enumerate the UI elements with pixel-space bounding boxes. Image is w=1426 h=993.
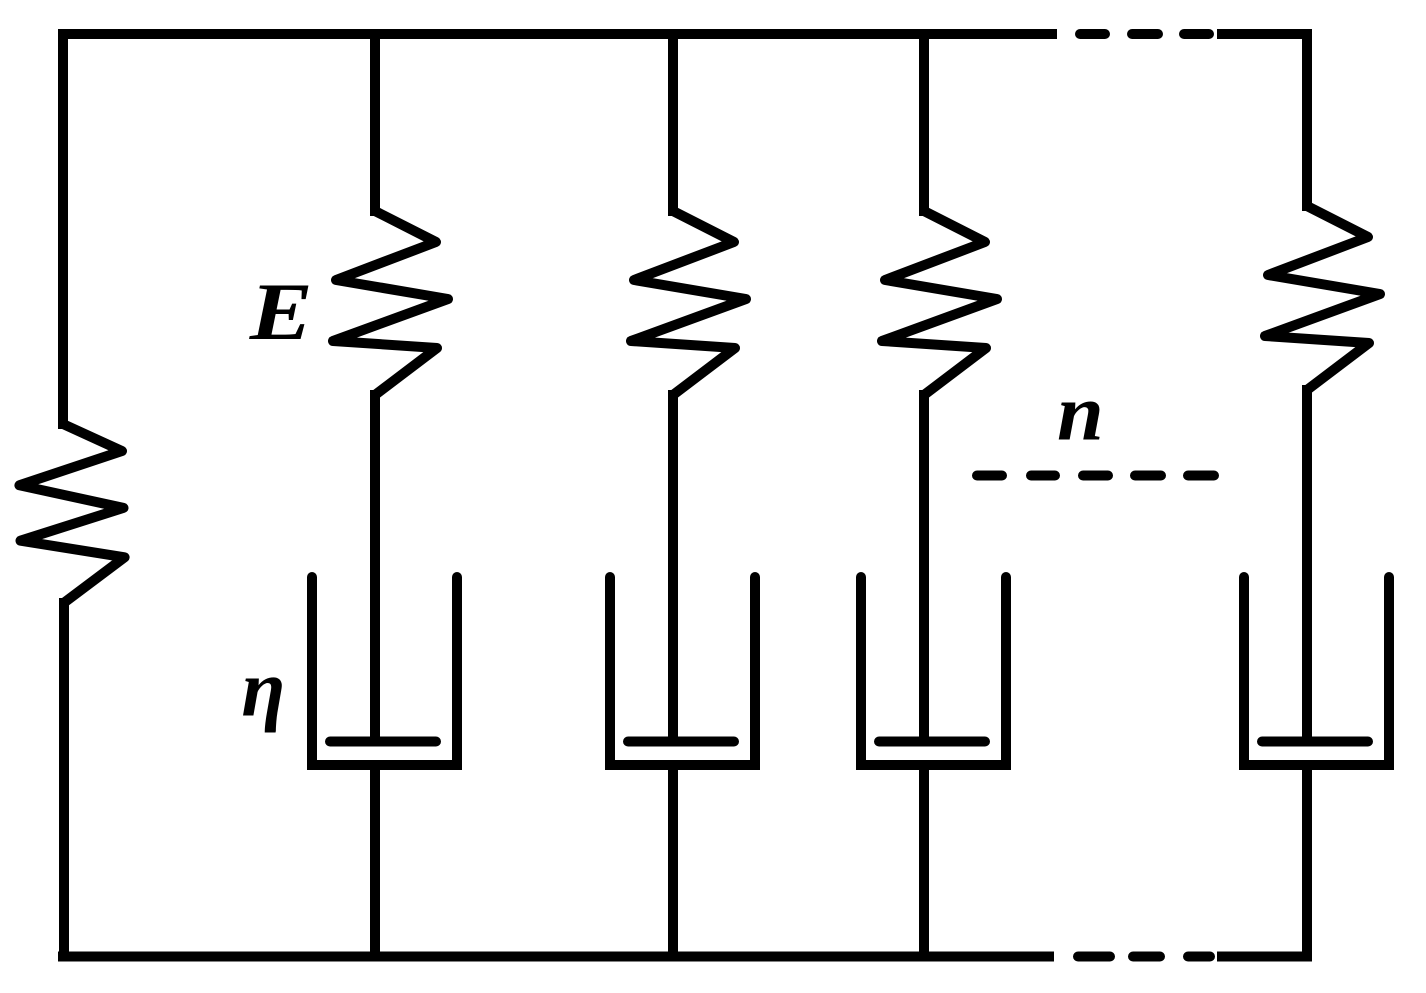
dashpot n piston plate <box>1262 737 1368 747</box>
dashpot n cup <box>1244 577 1389 765</box>
wire branch 1 piston rod <box>370 390 380 746</box>
wire branch n bottom stem <box>1302 765 1312 962</box>
dashpot 3 piston plate <box>879 737 985 747</box>
spring E2 <box>631 211 746 395</box>
svg-text:n: n <box>1057 368 1104 457</box>
wire branch n top <box>1302 29 1312 211</box>
wire branch 3 piston rod <box>919 390 929 746</box>
spring E1 <box>333 211 448 395</box>
wire branch 1 top <box>370 29 380 216</box>
wire branch 3 top <box>919 29 929 216</box>
node n dashed ellipsis line <box>977 471 1214 481</box>
dashpot 1 piston plate <box>330 737 436 747</box>
spring En <box>1265 206 1380 390</box>
dashpot 3 cup <box>861 577 1006 765</box>
wire left rail lower segment <box>59 598 69 962</box>
dashpot 2 cup <box>610 577 755 765</box>
wire top rail right solid segment <box>1217 29 1312 39</box>
wire bottom rail left solid segment <box>58 952 1054 962</box>
wire top rail dashed continuation <box>1080 29 1209 39</box>
wire branch 1 bottom stem <box>370 765 380 957</box>
wire branch 2 bottom stem <box>668 765 678 957</box>
wire left rail upper segment <box>58 29 68 429</box>
svg-text:E: E <box>249 267 313 358</box>
label n count <box>1057 368 1104 457</box>
dashpot 2 piston plate <box>628 737 734 747</box>
spring E3 <box>882 211 997 395</box>
dashpot 1 cup <box>312 577 457 765</box>
wire branch n piston rod <box>1302 385 1312 746</box>
wire branch 3 bottom stem <box>919 765 929 957</box>
wire bottom rail right solid segment <box>1217 952 1311 962</box>
wire top rail left solid segment <box>58 29 1057 39</box>
wire branch 2 top <box>668 29 678 216</box>
label eta value <box>241 645 285 733</box>
label E value <box>249 267 313 358</box>
spring E0 (left isolated spring) <box>19 424 124 603</box>
svg-text:η: η <box>241 645 285 733</box>
wire branch 2 piston rod <box>668 390 678 746</box>
wire bottom rail dashed continuation <box>1078 952 1210 962</box>
